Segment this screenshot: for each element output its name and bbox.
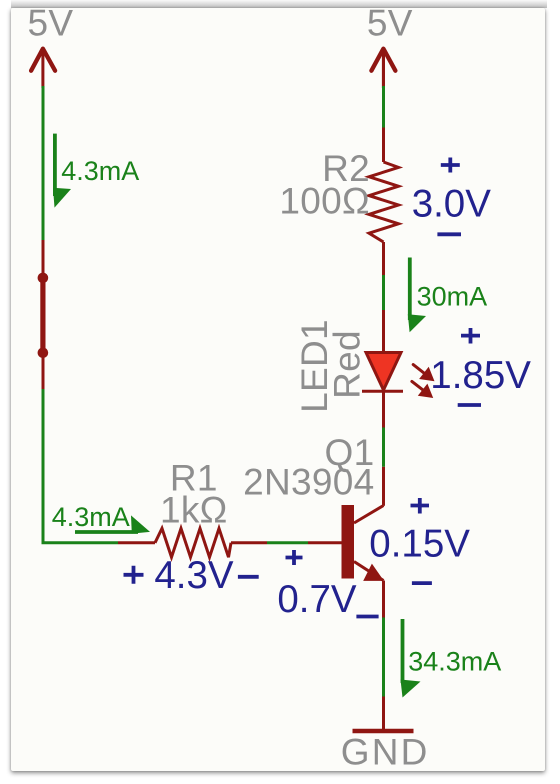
svg-text:0.15V: 0.15V xyxy=(369,523,470,566)
svg-text:1.85V: 1.85V xyxy=(430,354,531,397)
svg-text:5V: 5V xyxy=(28,2,74,43)
svg-text:GND: GND xyxy=(341,732,430,773)
svg-text:34.3mA: 34.3mA xyxy=(408,647,501,677)
svg-text:4.3mA: 4.3mA xyxy=(61,156,139,186)
svg-text:3.0V: 3.0V xyxy=(412,183,492,226)
svg-text:4.3mA: 4.3mA xyxy=(52,502,130,532)
svg-text:5V: 5V xyxy=(367,2,413,43)
svg-text:Red: Red xyxy=(327,330,368,399)
svg-text:0.7V: 0.7V xyxy=(277,578,357,621)
svg-text:1kΩ: 1kΩ xyxy=(160,490,228,531)
svg-text:4.3V: 4.3V xyxy=(154,554,234,597)
svg-text:100Ω: 100Ω xyxy=(279,181,370,222)
svg-text:30mA: 30mA xyxy=(417,282,488,312)
svg-text:2N3904: 2N3904 xyxy=(243,461,374,502)
